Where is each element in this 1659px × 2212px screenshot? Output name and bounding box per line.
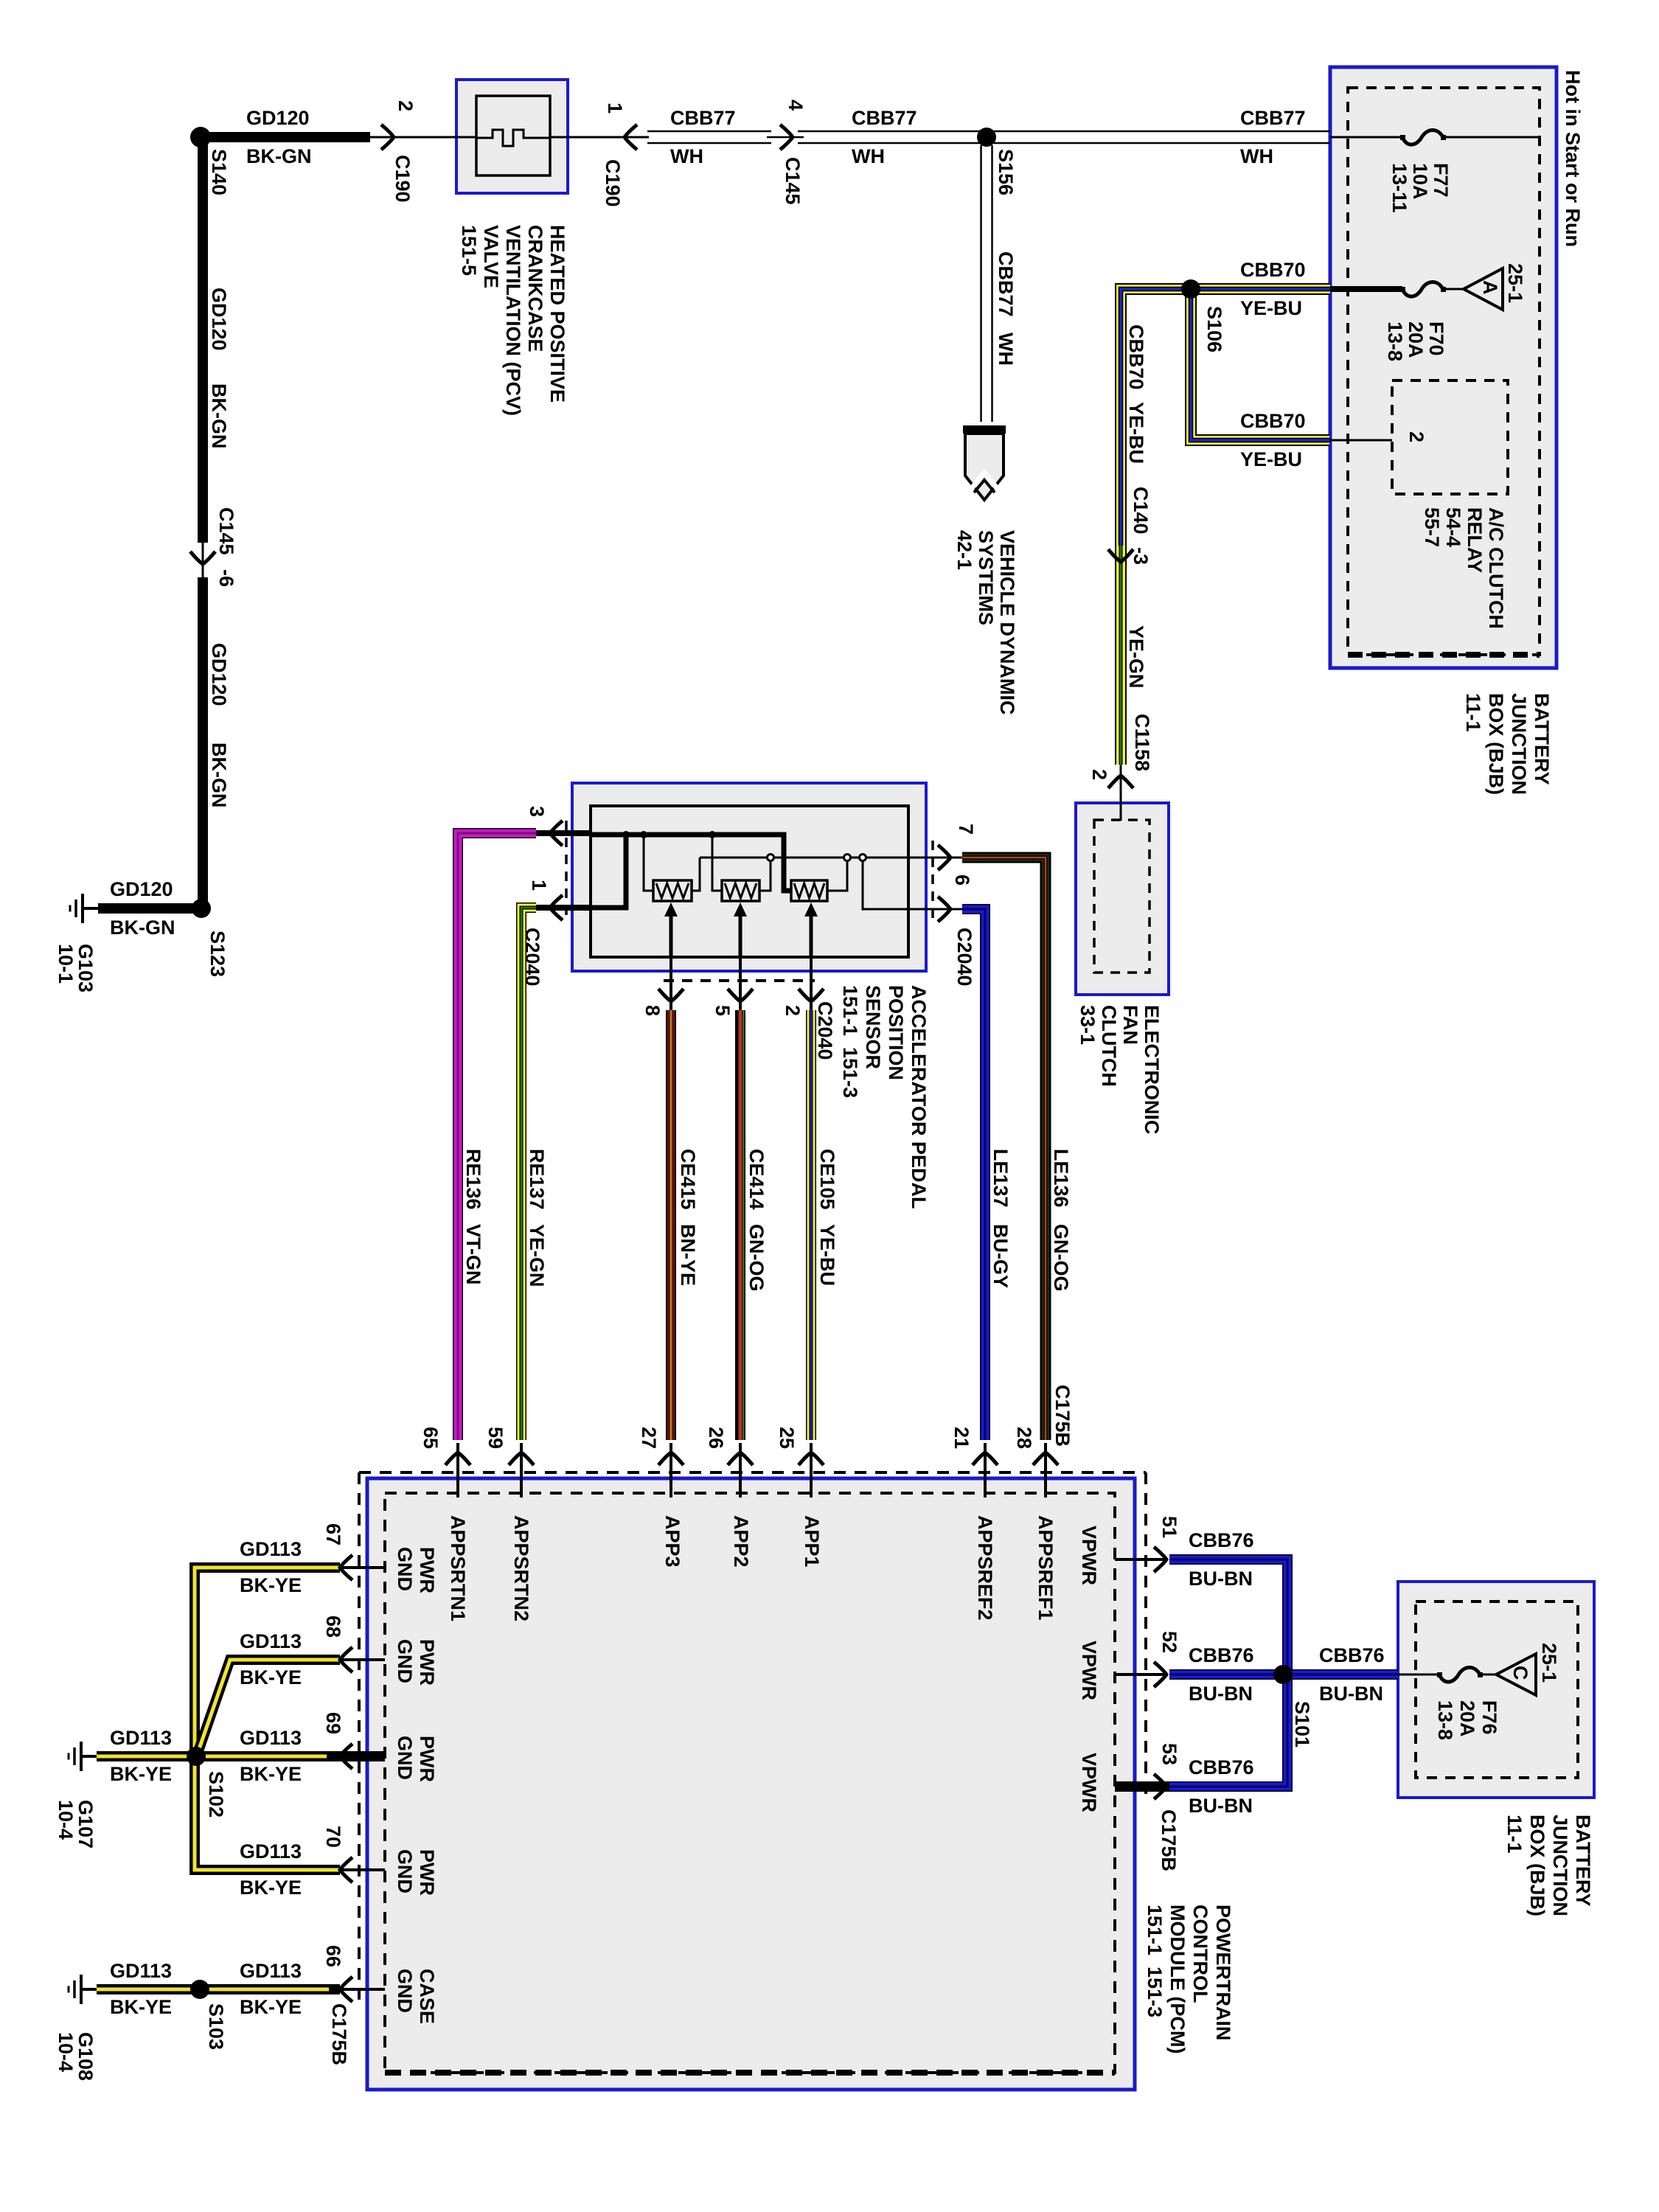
svg-text:APPSREF2: APPSREF2 bbox=[974, 1515, 996, 1621]
svg-text:SENSOR: SENSOR bbox=[862, 985, 884, 1069]
svg-text:C175B: C175B bbox=[1051, 1385, 1074, 1447]
svg-text:S156: S156 bbox=[995, 149, 1017, 195]
svg-text:CBB76: CBB76 bbox=[1189, 1644, 1254, 1666]
svg-text:RE136: RE136 bbox=[462, 1149, 484, 1210]
svg-text:PWR: PWR bbox=[416, 1736, 438, 1782]
svg-text:-6: -6 bbox=[215, 569, 237, 587]
svg-text:LE136: LE136 bbox=[1050, 1149, 1072, 1208]
svg-text:GND: GND bbox=[394, 1849, 416, 1893]
svg-text:CBB76: CBB76 bbox=[1189, 1756, 1254, 1778]
svg-text:68: 68 bbox=[322, 1615, 344, 1638]
svg-text:C175B: C175B bbox=[328, 2003, 350, 2065]
svg-text:BK-GN: BK-GN bbox=[110, 917, 175, 939]
svg-text:52: 52 bbox=[1158, 1631, 1180, 1653]
svg-text:GD113: GD113 bbox=[240, 1960, 302, 1982]
svg-text:BU-GY: BU-GY bbox=[990, 1224, 1012, 1288]
svg-text:G107: G107 bbox=[74, 1800, 97, 1848]
svg-text:7: 7 bbox=[955, 824, 977, 835]
svg-text:CBB70: CBB70 bbox=[1240, 410, 1306, 432]
svg-text:53: 53 bbox=[1158, 1743, 1180, 1765]
svg-text:GD113: GD113 bbox=[240, 1840, 302, 1863]
svg-text:BN-YE: BN-YE bbox=[677, 1224, 699, 1286]
svg-text:151-1 151-3: 151-1 151-3 bbox=[839, 985, 861, 1098]
svg-text:VPWR: VPWR bbox=[1078, 1526, 1100, 1585]
svg-text:CBB70: CBB70 bbox=[1125, 324, 1147, 390]
svg-text:GND: GND bbox=[394, 1736, 416, 1780]
svg-text:BOX (BJB): BOX (BJB) bbox=[1485, 693, 1507, 795]
svg-text:BU-BN: BU-BN bbox=[1319, 1683, 1383, 1705]
svg-text:VT-GN: VT-GN bbox=[462, 1224, 484, 1285]
svg-text:F76: F76 bbox=[1478, 1700, 1500, 1735]
svg-text:POWERTRAIN: POWERTRAIN bbox=[1212, 1905, 1234, 2041]
svg-text:67: 67 bbox=[322, 1523, 344, 1545]
svg-text:CBB77: CBB77 bbox=[995, 251, 1017, 317]
svg-text:25-1: 25-1 bbox=[1504, 263, 1526, 303]
svg-text:GN-OG: GN-OG bbox=[1050, 1224, 1072, 1292]
svg-text:BK-YE: BK-YE bbox=[240, 1574, 302, 1596]
svg-text:C145: C145 bbox=[215, 507, 237, 555]
svg-text:PWR: PWR bbox=[416, 1547, 438, 1593]
svg-text:C2040: C2040 bbox=[814, 1001, 836, 1060]
svg-text:BK-YE: BK-YE bbox=[240, 1877, 302, 1899]
svg-text:10-4: 10-4 bbox=[55, 1800, 77, 1840]
svg-text:25: 25 bbox=[776, 1427, 798, 1449]
svg-text:2: 2 bbox=[394, 100, 417, 111]
svg-text:BU-BN: BU-BN bbox=[1189, 1568, 1253, 1590]
svg-text:3: 3 bbox=[526, 806, 548, 817]
svg-text:C2040: C2040 bbox=[521, 928, 543, 987]
svg-text:10A: 10A bbox=[1409, 163, 1431, 200]
svg-text:25-1: 25-1 bbox=[1538, 1643, 1560, 1683]
svg-text:A/C CLUTCH: A/C CLUTCH bbox=[1485, 507, 1507, 629]
svg-text:JUNCTION: JUNCTION bbox=[1508, 693, 1530, 795]
svg-text:C: C bbox=[1509, 1666, 1531, 1680]
svg-text:SYSTEMS: SYSTEMS bbox=[975, 530, 997, 625]
svg-text:GD113: GD113 bbox=[240, 1727, 302, 1749]
svg-text:WH: WH bbox=[670, 145, 703, 167]
svg-text:ACCELERATOR PEDAL: ACCELERATOR PEDAL bbox=[908, 985, 930, 1209]
svg-text:5: 5 bbox=[712, 1005, 734, 1016]
svg-text:APPSREF1: APPSREF1 bbox=[1034, 1515, 1057, 1621]
svg-text:54-4: 54-4 bbox=[1442, 507, 1464, 547]
svg-text:C2040: C2040 bbox=[953, 928, 975, 987]
svg-text:WH: WH bbox=[852, 145, 885, 167]
svg-text:4: 4 bbox=[785, 100, 807, 111]
svg-text:YE-BU: YE-BU bbox=[1240, 448, 1302, 470]
svg-text:1: 1 bbox=[604, 102, 626, 114]
svg-text:28: 28 bbox=[1013, 1427, 1035, 1449]
svg-text:GD120: GD120 bbox=[208, 643, 230, 706]
svg-text:151-5: 151-5 bbox=[458, 225, 480, 276]
svg-text:CE105: CE105 bbox=[816, 1149, 838, 1210]
svg-text:VEHICLE DYNAMIC: VEHICLE DYNAMIC bbox=[996, 530, 1018, 715]
svg-text:1: 1 bbox=[528, 880, 550, 891]
svg-text:2: 2 bbox=[1405, 431, 1427, 442]
svg-text:S103: S103 bbox=[205, 2003, 227, 2050]
svg-text:GD120: GD120 bbox=[208, 288, 230, 351]
svg-text:CBB77: CBB77 bbox=[670, 107, 736, 129]
svg-text:C145: C145 bbox=[782, 157, 804, 205]
svg-text:CBB76: CBB76 bbox=[1319, 1644, 1385, 1666]
svg-text:CASE: CASE bbox=[416, 1969, 438, 2024]
svg-text:ELECTRONIC: ELECTRONIC bbox=[1141, 1005, 1163, 1135]
svg-text:6: 6 bbox=[951, 874, 973, 886]
svg-text:A: A bbox=[1479, 280, 1501, 295]
svg-text:10-1: 10-1 bbox=[55, 944, 77, 984]
svg-text:BOX (BJB): BOX (BJB) bbox=[1526, 1815, 1548, 1916]
svg-text:GD113: GD113 bbox=[240, 1538, 302, 1560]
svg-text:51: 51 bbox=[1158, 1516, 1180, 1538]
svg-text:F77: F77 bbox=[1430, 163, 1452, 198]
svg-text:CLUTCH: CLUTCH bbox=[1098, 1005, 1120, 1087]
svg-text:RELAY: RELAY bbox=[1464, 507, 1486, 573]
svg-text:GND: GND bbox=[394, 1639, 416, 1683]
svg-text:APP2: APP2 bbox=[730, 1515, 752, 1568]
svg-text:BK-YE: BK-YE bbox=[110, 1763, 172, 1785]
svg-text:151-1 151-3: 151-1 151-3 bbox=[1144, 1905, 1166, 2017]
svg-text:CBB77: CBB77 bbox=[1240, 107, 1306, 129]
svg-text:APP1: APP1 bbox=[801, 1515, 823, 1568]
svg-text:C190: C190 bbox=[392, 155, 414, 203]
svg-text:GN-OG: GN-OG bbox=[745, 1224, 768, 1292]
svg-text:BATTERY: BATTERY bbox=[1572, 1815, 1594, 1907]
svg-text:65: 65 bbox=[420, 1427, 442, 1449]
svg-text:70: 70 bbox=[322, 1826, 344, 1848]
svg-text:Hot in Start or Run: Hot in Start or Run bbox=[1562, 70, 1584, 247]
svg-text:GD113: GD113 bbox=[240, 1630, 302, 1652]
svg-text:FAN: FAN bbox=[1119, 1005, 1141, 1045]
svg-text:WH: WH bbox=[995, 333, 1017, 366]
svg-text:YE-GN: YE-GN bbox=[1125, 625, 1147, 689]
svg-text:26: 26 bbox=[705, 1427, 727, 1449]
svg-text:G108: G108 bbox=[74, 2032, 97, 2081]
svg-text:BU-BN: BU-BN bbox=[1189, 1683, 1253, 1705]
svg-text:BK-YE: BK-YE bbox=[110, 1996, 172, 2018]
svg-text:33-1: 33-1 bbox=[1077, 1005, 1099, 1045]
svg-text:APPSRTN2: APPSRTN2 bbox=[510, 1515, 532, 1621]
svg-text:11-1: 11-1 bbox=[1462, 693, 1484, 732]
svg-text:APPSRTN1: APPSRTN1 bbox=[447, 1515, 469, 1621]
svg-text:BK-YE: BK-YE bbox=[240, 1996, 302, 2018]
svg-text:20A: 20A bbox=[1456, 1700, 1478, 1737]
svg-text:GD120: GD120 bbox=[246, 107, 310, 129]
svg-text:CBB76: CBB76 bbox=[1189, 1529, 1254, 1551]
svg-text:CBB70: CBB70 bbox=[1240, 259, 1306, 281]
svg-text:CBB77: CBB77 bbox=[852, 107, 917, 129]
svg-text:C140: C140 bbox=[1130, 487, 1152, 535]
svg-text:G103: G103 bbox=[74, 944, 97, 992]
svg-text:C1158: C1158 bbox=[1131, 714, 1153, 771]
svg-text:27: 27 bbox=[638, 1427, 660, 1449]
svg-text:GD113: GD113 bbox=[110, 1960, 172, 1982]
svg-text:APP3: APP3 bbox=[661, 1515, 684, 1568]
svg-text:RE137: RE137 bbox=[526, 1149, 548, 1210]
svg-text:WH: WH bbox=[1240, 145, 1273, 167]
svg-text:PWR: PWR bbox=[416, 1849, 438, 1896]
svg-text:S101: S101 bbox=[1291, 1701, 1313, 1747]
svg-text:S106: S106 bbox=[1203, 306, 1225, 352]
svg-text:2: 2 bbox=[782, 1005, 804, 1016]
svg-text:8: 8 bbox=[641, 1005, 664, 1016]
svg-text:YE-BU: YE-BU bbox=[1125, 402, 1147, 464]
svg-text:F70: F70 bbox=[1425, 321, 1447, 356]
svg-text:S123: S123 bbox=[206, 931, 229, 977]
svg-text:BATTERY: BATTERY bbox=[1531, 693, 1553, 785]
svg-text:CRANKCASE: CRANKCASE bbox=[524, 225, 546, 352]
svg-text:BK-GN: BK-GN bbox=[208, 742, 230, 808]
svg-text:YE-BU: YE-BU bbox=[816, 1224, 838, 1286]
svg-text:LE137: LE137 bbox=[990, 1149, 1012, 1208]
svg-text:BK-YE: BK-YE bbox=[240, 1763, 302, 1785]
svg-text:C190: C190 bbox=[602, 159, 624, 207]
svg-text:13-8: 13-8 bbox=[1434, 1700, 1456, 1740]
svg-text:GD113: GD113 bbox=[110, 1727, 172, 1749]
svg-text:YE-GN: YE-GN bbox=[526, 1224, 548, 1287]
svg-text:S140: S140 bbox=[208, 149, 230, 195]
svg-text:POSITION: POSITION bbox=[885, 985, 907, 1080]
svg-text:66: 66 bbox=[322, 1945, 344, 1967]
svg-text:MODULE (PCM): MODULE (PCM) bbox=[1166, 1905, 1189, 2053]
svg-text:GD120: GD120 bbox=[110, 878, 173, 900]
svg-text:21: 21 bbox=[950, 1427, 973, 1449]
svg-text:VPWR: VPWR bbox=[1078, 1641, 1100, 1700]
svg-text:20A: 20A bbox=[1405, 321, 1427, 358]
svg-text:13-8: 13-8 bbox=[1384, 321, 1406, 361]
svg-text:S102: S102 bbox=[205, 1771, 227, 1818]
svg-text:VALVE: VALVE bbox=[480, 225, 502, 288]
svg-text:42-1: 42-1 bbox=[953, 530, 975, 570]
svg-text:-3: -3 bbox=[1130, 547, 1152, 565]
svg-text:CE414: CE414 bbox=[745, 1149, 768, 1210]
svg-text:YE-BU: YE-BU bbox=[1240, 297, 1302, 319]
svg-text:59: 59 bbox=[484, 1427, 507, 1449]
svg-text:BU-BN: BU-BN bbox=[1189, 1795, 1253, 1817]
svg-text:11-1: 11-1 bbox=[1503, 1815, 1526, 1854]
svg-text:CE415: CE415 bbox=[677, 1149, 699, 1210]
svg-text:BK-YE: BK-YE bbox=[240, 1666, 302, 1688]
svg-text:JUNCTION: JUNCTION bbox=[1549, 1815, 1571, 1916]
svg-text:2: 2 bbox=[1088, 769, 1110, 780]
svg-text:55-7: 55-7 bbox=[1421, 507, 1443, 547]
svg-text:BK-GN: BK-GN bbox=[246, 145, 312, 167]
svg-text:69: 69 bbox=[322, 1712, 344, 1734]
svg-text:C175B: C175B bbox=[1158, 1809, 1180, 1871]
svg-text:13-11: 13-11 bbox=[1388, 163, 1411, 213]
svg-text:VPWR: VPWR bbox=[1078, 1753, 1100, 1812]
svg-text:PWR: PWR bbox=[416, 1639, 438, 1686]
svg-text:CONTROL: CONTROL bbox=[1189, 1905, 1211, 2003]
svg-text:10-4: 10-4 bbox=[55, 2032, 77, 2072]
svg-text:GND: GND bbox=[394, 1969, 416, 2013]
svg-text:BK-GN: BK-GN bbox=[208, 383, 230, 449]
svg-text:GND: GND bbox=[394, 1547, 416, 1591]
svg-text:VENTILATION (PCV): VENTILATION (PCV) bbox=[502, 225, 524, 416]
svg-text:HEATED POSITIVE: HEATED POSITIVE bbox=[546, 225, 568, 403]
